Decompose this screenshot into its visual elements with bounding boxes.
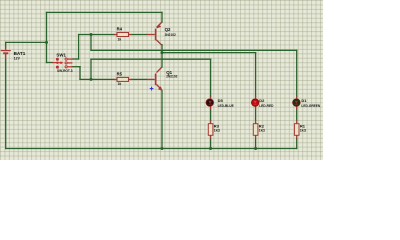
svg-text:12V: 12V <box>14 57 21 61</box>
battery BAT1 <box>1 47 26 61</box>
svg-text:R1: R1 <box>300 124 306 129</box>
svg-text:1kΩ: 1kΩ <box>214 129 221 133</box>
wire battery top lead <box>5 42 7 47</box>
switch SW1 (SW-ROT-3) <box>52 53 72 73</box>
svg-text:SW-ROT-3: SW-ROT-3 <box>57 69 73 73</box>
wire throw1 vertical up <box>78 35 80 60</box>
svg-text:Q2: Q2 <box>165 27 171 32</box>
wire D5 column drop <box>210 59 212 96</box>
wire battery row <box>6 41 47 43</box>
wire D1 to R1 <box>296 109 298 120</box>
wire base row Q2 left <box>79 34 114 36</box>
wire Q1 emitter down <box>161 91 163 149</box>
wire top rail <box>47 11 163 13</box>
svg-text:R3: R3 <box>214 124 220 129</box>
resistor R1 <box>294 120 306 138</box>
svg-text:2N2102: 2N2102 <box>165 33 176 37</box>
LED D1 (LED-GREEN) <box>293 96 321 109</box>
wire switch pole <box>47 62 53 64</box>
wire bottom rail <box>6 148 297 150</box>
wire Q2 collector to Q1 collector <box>161 45 163 67</box>
svg-text:D1: D1 <box>301 98 307 103</box>
wire branch to D1 horizontal <box>91 49 297 51</box>
node junction R3 bottom rail <box>209 147 212 150</box>
wire R3 to bottom rail <box>210 139 212 149</box>
transistor Q1 (NPN) <box>147 67 178 91</box>
svg-text:D5: D5 <box>218 98 224 103</box>
wire D5 to R3 <box>210 109 212 120</box>
wire branch to D5 vertical <box>90 59 92 79</box>
svg-text:2N2102: 2N2102 <box>166 75 177 79</box>
wire R2 to bottom rail <box>255 139 257 149</box>
wire switch throw1 <box>72 58 78 60</box>
wire D2 column drop <box>255 53 257 97</box>
svg-text:R4: R4 <box>117 26 123 31</box>
wire top rail drop to Q2 emitter <box>161 12 163 22</box>
node junction R2 bottom rail <box>254 147 257 150</box>
transistor Q2 (PNP) <box>147 22 176 45</box>
LED D5 (LED-BLUE) <box>206 96 234 109</box>
svg-text:1k: 1k <box>118 82 122 86</box>
sheet background grid <box>0 0 323 160</box>
svg-text:LED-RED: LED-RED <box>259 104 274 108</box>
svg-text:D2: D2 <box>259 98 265 103</box>
wire branch to D5 horizontal <box>91 58 211 60</box>
wire D1 column drop <box>296 50 298 96</box>
wire throw3 vertical down <box>79 67 81 80</box>
wire R1 to bottom rail <box>296 139 298 149</box>
wire base row Q1 left <box>80 78 114 80</box>
node junction battery row <box>45 41 48 44</box>
resistor R2 <box>253 120 265 138</box>
svg-text:LED-GREEN: LED-GREEN <box>301 104 320 108</box>
wire base row Q2 right <box>132 34 147 36</box>
node junction emitter bottom rail <box>161 147 164 150</box>
svg-text:R2: R2 <box>259 124 265 129</box>
wire left vertical from top rail to switch pole <box>46 12 48 62</box>
LED D2 (LED-RED) <box>251 96 274 109</box>
svg-text:Q1: Q1 <box>166 70 172 75</box>
svg-text:1kΩ: 1kΩ <box>300 129 307 133</box>
resistor R4 <box>114 26 132 41</box>
node junction base row <box>90 33 93 36</box>
svg-text:1k: 1k <box>118 37 122 41</box>
wire battery bottom to ground rail <box>5 60 7 149</box>
marker origin cross Q1 <box>150 87 154 91</box>
resistor R5 <box>114 71 132 86</box>
node junction collector bus <box>161 51 164 54</box>
wire base row Q1 right <box>132 78 147 80</box>
svg-text:SW1: SW1 <box>56 53 66 58</box>
svg-text:LED-BLUE: LED-BLUE <box>218 104 234 108</box>
wire collector bus to D2 <box>162 52 256 54</box>
node junction base row Q1 <box>90 78 93 81</box>
svg-text:BAT1: BAT1 <box>14 51 26 56</box>
wire D2 to R2 <box>255 109 257 120</box>
resistor R3 <box>208 120 220 138</box>
wire switch throw3 <box>72 66 80 68</box>
svg-text:1kΩ: 1kΩ <box>259 129 266 133</box>
svg-text:R5: R5 <box>117 71 123 76</box>
wire branch to D1 vertical <box>90 35 92 51</box>
